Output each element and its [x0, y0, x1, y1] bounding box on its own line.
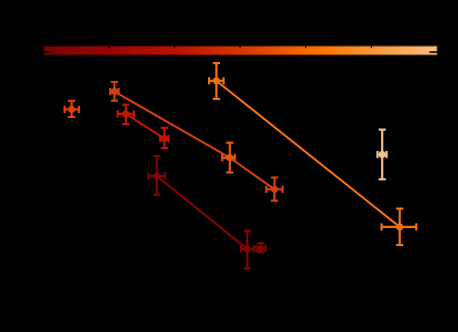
- point E errorbars: [160, 128, 168, 148]
- colorbar tick 3: [240, 46, 241, 48]
- point B errorbars: [118, 105, 134, 124]
- point G marker: [257, 245, 264, 252]
- point H errorbars: [209, 63, 224, 99]
- point J errorbars: [378, 130, 387, 180]
- point F1 errorbars: [149, 156, 166, 195]
- point P0 marker: [68, 106, 75, 113]
- point I marker: [396, 223, 403, 230]
- point B marker: [122, 110, 129, 117]
- point E marker: [161, 135, 168, 142]
- colorbar tick 2: [174, 46, 175, 48]
- point P0 errorbars: [65, 101, 79, 117]
- point J marker: [379, 151, 386, 158]
- series line A-C-D: [114, 92, 274, 190]
- point A marker: [111, 88, 118, 95]
- point C errorbars: [222, 143, 234, 173]
- point I errorbars: [382, 209, 417, 245]
- colorbar tick 5: [371, 46, 372, 48]
- point F2 errorbars: [241, 231, 254, 269]
- colorbar: [44, 46, 438, 55]
- point D marker: [271, 186, 278, 193]
- series line H-I: [216, 81, 399, 227]
- colorbar tick 1: [109, 46, 110, 48]
- point F2 marker: [244, 245, 251, 252]
- point A errorbars: [110, 82, 118, 101]
- point H marker: [213, 77, 220, 84]
- point F1 marker: [153, 172, 160, 179]
- series line F1-F2: [157, 176, 247, 249]
- series line B-E: [126, 114, 165, 139]
- point D errorbars: [266, 178, 282, 201]
- colorbar right end dash: [429, 51, 437, 53]
- colorbar tick 4: [305, 46, 306, 48]
- point C marker: [226, 154, 233, 161]
- colorbar left end dash: [44, 51, 52, 53]
- point G errorbars: [256, 243, 266, 252]
